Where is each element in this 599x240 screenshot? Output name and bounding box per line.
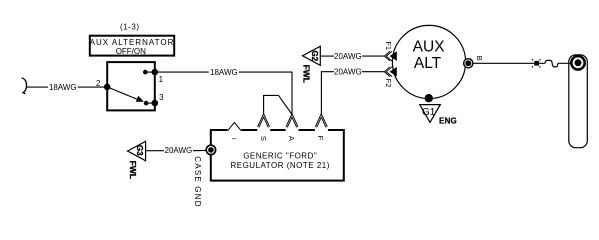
svg-text:20AWG: 20AWG [165,146,193,155]
wire 20AWG F to F2: vertical drop [321,72,334,115]
B terminal bullseye [464,59,473,68]
svg-text:20AWG: 20AWG [334,52,362,61]
switch contact wire pole 1 [145,71,155,73]
svg-text:3: 3 [159,93,164,102]
svg-text:S: S [259,136,268,141]
switch arm arrowhead [136,96,144,102]
svg-text:F2: F2 [384,79,393,88]
contact dot near pin 3 [144,101,149,106]
terminal 1 junction dot [152,69,159,76]
switch label box [90,36,174,56]
svg-text:GENERIC "FORD": GENERIC "FORD" [243,152,317,161]
switch S1 box [107,62,155,110]
splice X symbol [534,61,539,66]
F2 male triangle [390,67,397,77]
wire 20AWG G2 to F1 left segment [320,55,334,57]
svg-text:18AWG: 18AWG [49,83,77,92]
wire segment to squiggle [539,62,545,64]
F1 male triangle [390,51,397,61]
switch contact wire pole 3 [146,102,155,104]
svg-text:REGULATOR (NOTE 21): REGULATOR (NOTE 21) [230,161,329,170]
wire 20AWG case gnd right segment [193,149,207,151]
inline squiggle symbol [545,60,558,67]
regulator U1 box [211,130,344,181]
wire B to bus bar [473,62,534,64]
svg-text:2: 2 [96,79,101,88]
svg-text:20AWG: 20AWG [334,68,362,77]
svg-text:B: B [475,56,484,61]
terminal 3 junction dot [152,100,159,107]
svg-text:CASE GND: CASE GND [193,156,202,207]
svg-text:ALT: ALT [414,55,442,72]
terminal bump minus [228,122,241,130]
svg-text:OFF/ON: OFF/ON [116,47,146,56]
gaps in box top edge for terminals [228,129,328,132]
wire 20AWG case gnd left segment [146,150,164,152]
wire 20AWG F to F2 right segment [362,71,384,73]
bus bar body [569,55,588,148]
terminal S chevron [258,114,270,127]
svg-text:–: – [232,134,237,143]
ground G1 triangle [420,105,441,123]
terminal 2 junction dot [104,84,111,91]
svg-text:AUX ALTERNATOR: AUX ALTERNATOR [90,38,175,47]
terminal A chevron [286,114,298,127]
svg-text:18AWG: 18AWG [210,68,238,77]
F2 female chevron [384,67,390,77]
svg-text:G2: G2 [310,50,319,61]
svg-text:1: 1 [159,75,164,84]
wire squiggle to bus [558,62,572,64]
svg-text:F1: F1 [384,41,393,50]
svg-text:F: F [316,136,325,141]
svg-text:G1: G1 [422,107,436,118]
wire 18AWG from pin1 left segment [155,71,209,73]
svg-text:FWL: FWL [128,161,138,179]
contact dot near pin 1 [143,70,148,75]
ground G3 triangle [128,141,146,160]
case gnd bullseye terminal [206,145,215,154]
svg-text:AUX: AUX [413,39,446,56]
ground G2 triangle [303,46,321,65]
wire break squiggle left [22,78,27,94]
switch arm wire [107,87,139,100]
wire 18AWG feed right segment [78,86,107,88]
jumper wire S to A [264,95,292,114]
wire 18AWG feed left segment [26,86,48,88]
svg-text:(1-3): (1-3) [120,23,140,32]
ground G1 junction dot [425,94,433,102]
wire 18AWG from pin1 right segment + drop to A [239,72,292,114]
F1 female chevron [384,51,390,61]
alternator M1 circle [392,25,465,98]
wire 20AWG G2 to F1 right segment [362,55,384,57]
bus bar stud bullseye [571,56,584,69]
svg-text:G3: G3 [135,145,144,156]
svg-text:A: A [287,136,296,141]
svg-text:FWL: FWL [302,65,312,83]
terminal F chevron [315,114,327,127]
svg-text:ENG: ENG [439,116,457,125]
